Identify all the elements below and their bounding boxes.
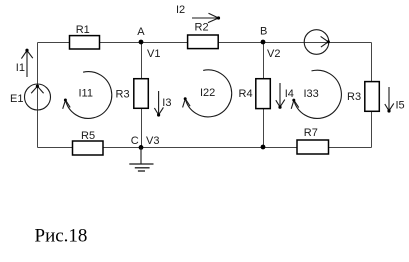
svg-text:R7: R7 bbox=[304, 127, 318, 139]
wire: right vertical branch (right R3 branch) bbox=[371, 43, 373, 148]
node C bbox=[131, 135, 144, 150]
svg-text:I4: I4 bbox=[285, 88, 294, 100]
loop current I22 (clockwise arc with arrowhead) bbox=[183, 70, 232, 117]
svg-text:I2: I2 bbox=[176, 4, 185, 16]
loop current I11 (clockwise arc with arrowhead) bbox=[63, 72, 112, 119]
svg-text:I1: I1 bbox=[16, 62, 25, 74]
svg-text:R1: R1 bbox=[76, 24, 90, 36]
junction dot on bottom rail below B bbox=[261, 145, 266, 150]
resistor R3 (left, between A and C) bbox=[116, 79, 149, 109]
svg-text:R3: R3 bbox=[347, 91, 361, 103]
loop current I33 (clockwise arc with arrowhead) bbox=[291, 70, 341, 118]
current I3 arrow bbox=[154, 91, 171, 117]
wire: middle branch A to C (left R3 branch) bbox=[141, 43, 143, 148]
resistor R2 bbox=[188, 22, 219, 49]
svg-text:R2: R2 bbox=[195, 22, 209, 34]
resistor R1 bbox=[70, 24, 100, 49]
svg-text:A: A bbox=[137, 26, 145, 38]
svg-text:V2: V2 bbox=[267, 48, 280, 60]
resistor R4 (between B and bottom junction) bbox=[239, 79, 271, 109]
svg-text:V1: V1 bbox=[147, 48, 160, 60]
current I2 arrow bbox=[176, 4, 220, 23]
svg-text:I3: I3 bbox=[162, 97, 171, 109]
svg-text:R5: R5 bbox=[81, 130, 95, 142]
svg-text:B: B bbox=[260, 26, 267, 38]
EMF source E1 (circle with upward arrow) bbox=[10, 84, 51, 110]
current I1 arrow bbox=[16, 49, 33, 77]
node A bbox=[137, 26, 145, 44]
svg-text:I22: I22 bbox=[200, 87, 215, 99]
svg-text:Рис.18: Рис.18 bbox=[35, 226, 88, 247]
svg-text:R4: R4 bbox=[239, 88, 253, 100]
svg-text:V3: V3 bbox=[146, 135, 159, 147]
node B bbox=[260, 26, 267, 45]
svg-text:I33: I33 bbox=[304, 88, 319, 100]
resistor R7 (bottom right) bbox=[297, 127, 329, 154]
current I5 arrow bbox=[385, 87, 405, 113]
svg-text:I11: I11 bbox=[79, 88, 93, 100]
ground symbol at node C bbox=[129, 147, 153, 171]
svg-text:C: C bbox=[131, 135, 139, 147]
wire: bottom rail bbox=[38, 147, 372, 149]
svg-text:E1: E1 bbox=[10, 93, 23, 105]
wire: top rail from left corner to right corner bbox=[38, 42, 372, 44]
svg-text:I5: I5 bbox=[396, 99, 405, 111]
current I4 arrow bbox=[276, 83, 294, 109]
wire: left vertical branch (E1 branch) bbox=[37, 43, 39, 148]
current source (circle with right arrow) on top rail bbox=[304, 30, 330, 55]
resistor R3 (right branch) bbox=[347, 82, 379, 112]
wire: middle branch B down to bottom junction (R4 branch) bbox=[263, 43, 265, 148]
svg-text:R3: R3 bbox=[116, 89, 130, 101]
resistor R5 (bottom left) bbox=[73, 130, 104, 155]
